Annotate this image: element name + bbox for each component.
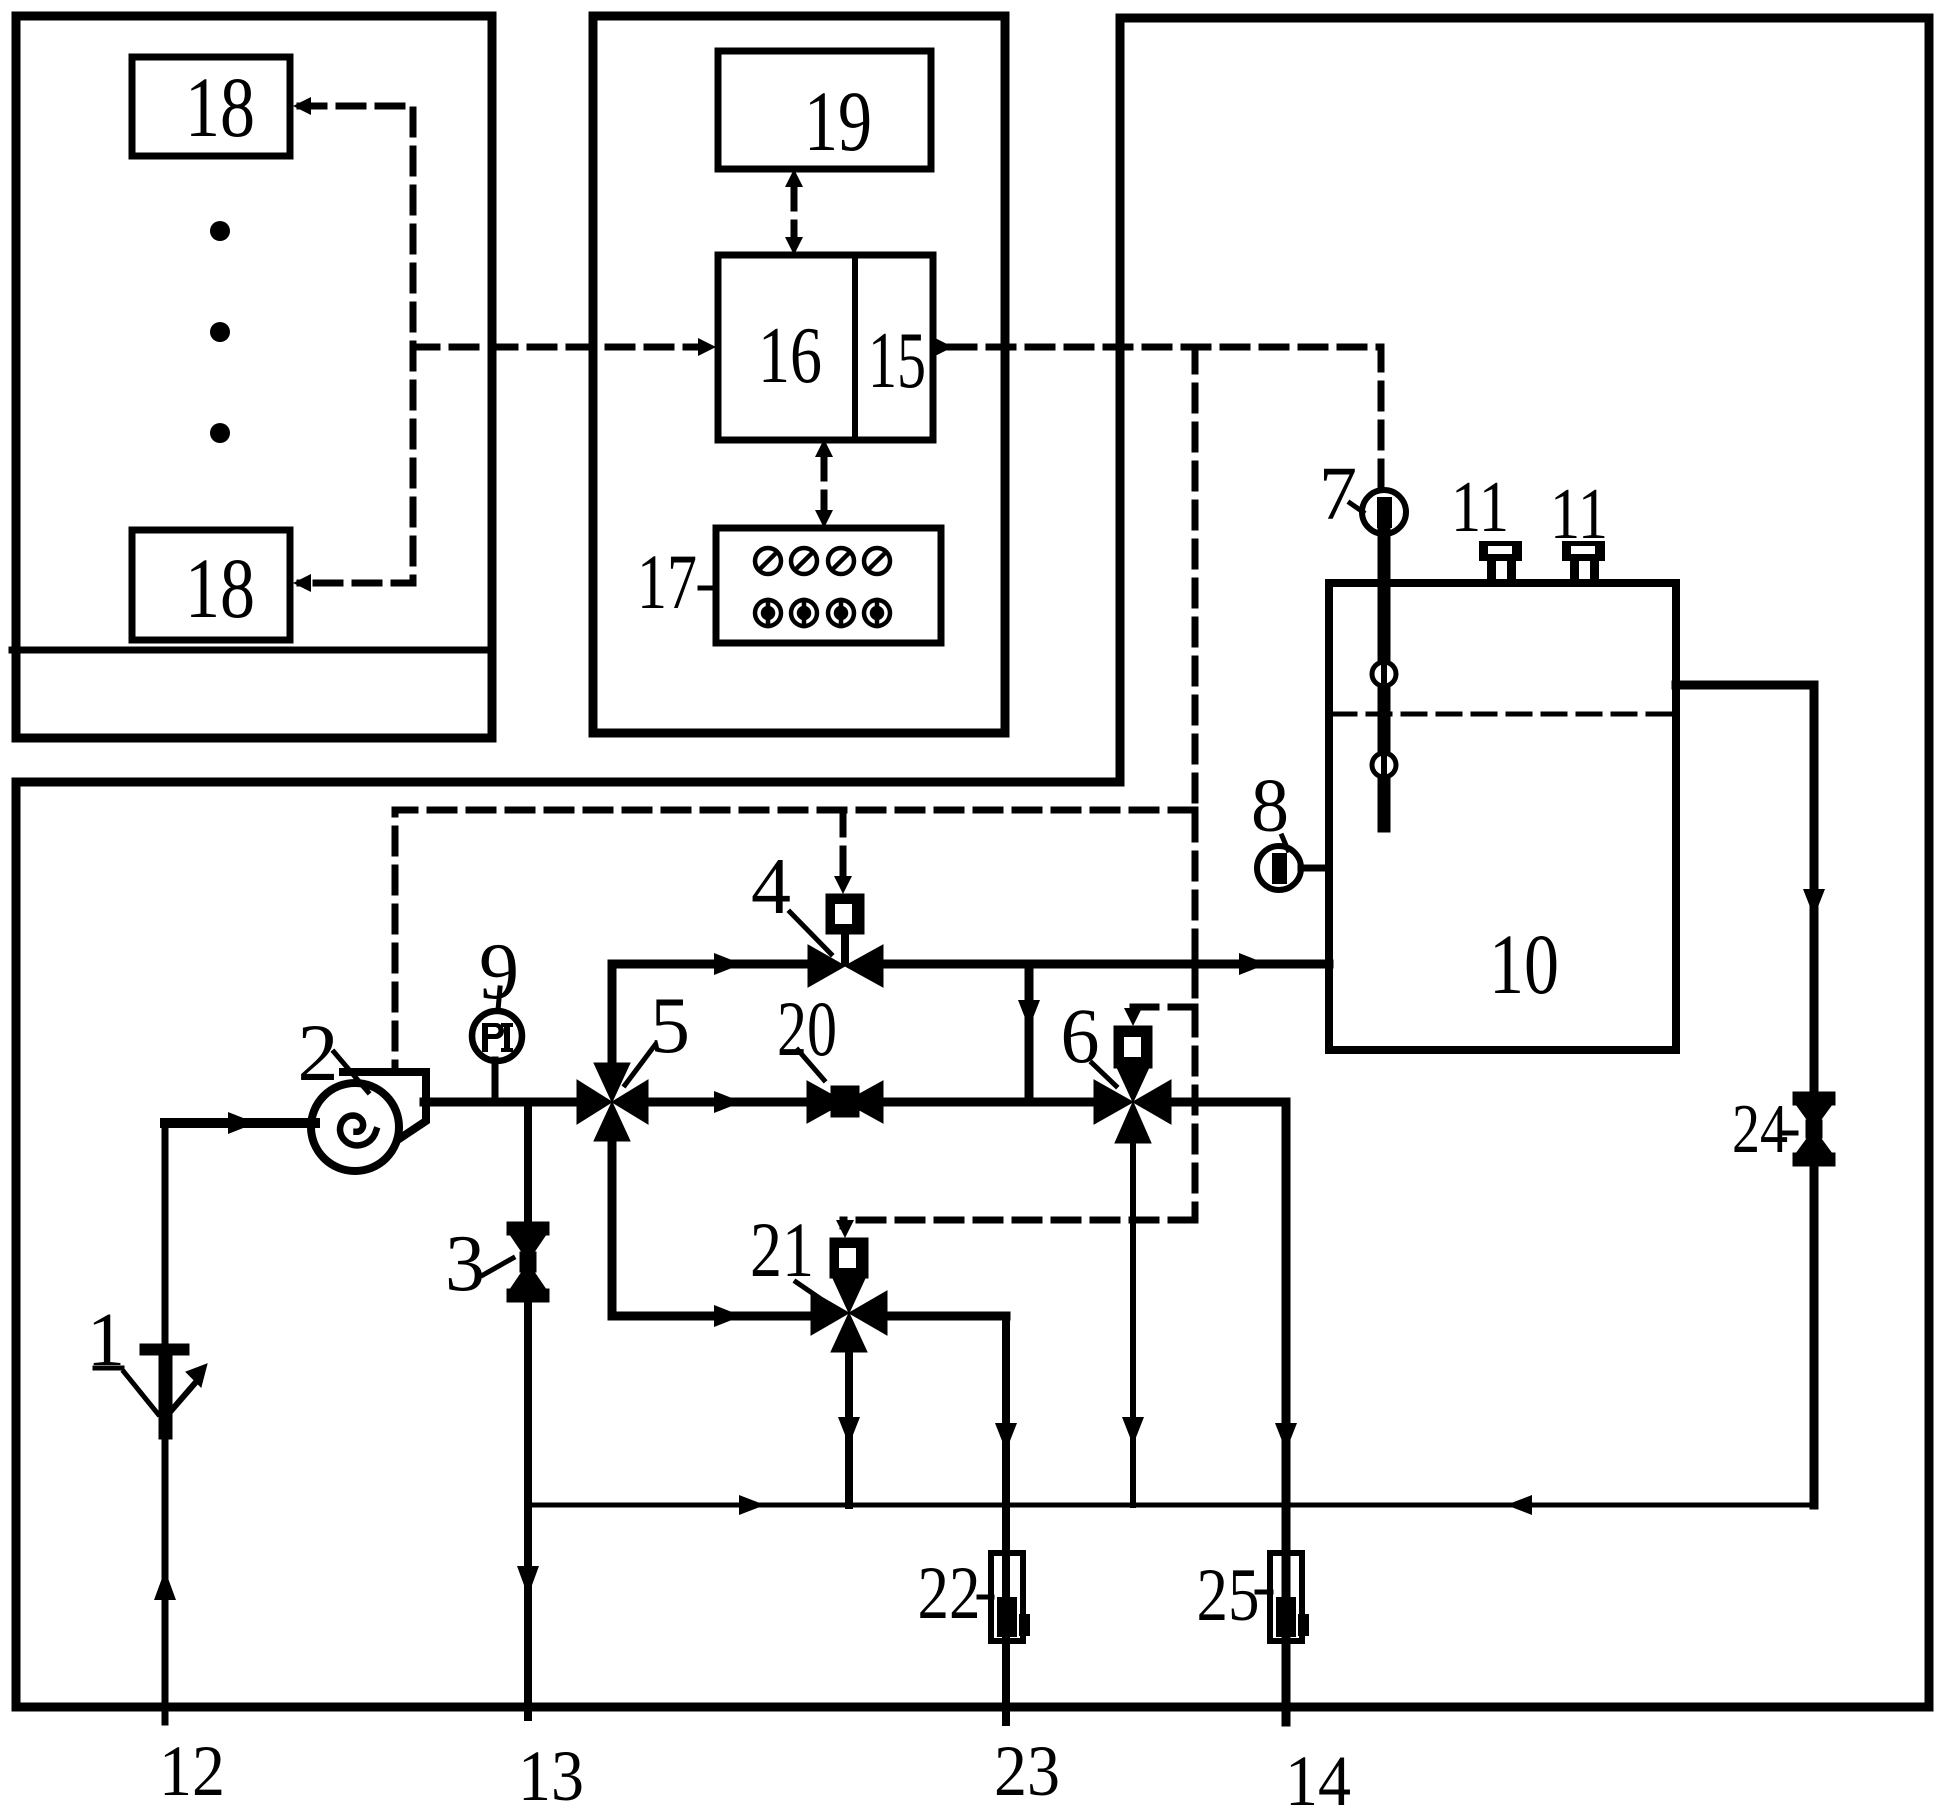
sensor 8 — [1257, 846, 1301, 890]
float switch upper — [1372, 662, 1396, 686]
arrow up into 16 bottom — [815, 439, 833, 457]
arrow out of 15 — [935, 338, 953, 356]
box 19 — [718, 51, 931, 169]
rotameter 22 — [991, 1553, 1023, 1641]
arrow upper line right — [714, 953, 742, 975]
svg-text:21: 21 — [750, 1206, 814, 1293]
knobs row2 in 17 — [755, 600, 890, 626]
pressure gauge PI — [472, 1011, 522, 1061]
pipe: line 23 vertical — [1002, 1316, 1010, 1722]
dots between 18 boxes — [210, 221, 230, 241]
arrow up into 19 — [785, 169, 803, 187]
control 19-16 link — [791, 184, 798, 240]
svg-text:24: 24 — [1732, 1091, 1788, 1168]
control branch to valve4 — [840, 810, 847, 878]
arrow down into valve4 actuator — [834, 876, 852, 894]
valve 21 (4-way) — [811, 1291, 849, 1335]
control line to pump — [395, 810, 1195, 1068]
arrow down into valve6 actuator — [1124, 1008, 1142, 1026]
arrow valve21 drop down — [838, 1417, 860, 1445]
svg-text:18: 18 — [185, 59, 255, 155]
pipe: suction line 12 to pump — [165, 1118, 315, 1128]
float switch lower — [1372, 753, 1396, 777]
arrow tank inlet right — [1239, 953, 1267, 975]
cap 11 left — [1479, 541, 1522, 584]
arrow line14 down — [1275, 1423, 1297, 1451]
control trunk to valve21 — [843, 1220, 1195, 1226]
tick for 17 — [700, 586, 717, 591]
control line 15 to sensor 7 — [950, 347, 1381, 488]
svg-text:15: 15 — [868, 317, 926, 405]
svg-text:4: 4 — [751, 843, 791, 931]
pipe: bottom collector line — [528, 1503, 1814, 1508]
level sensor 7 — [1362, 490, 1406, 534]
pipe: tank outlet to valve 24 — [1676, 681, 1814, 690]
valve 20 (regulating) — [807, 1081, 845, 1123]
arrow line13 down — [517, 1566, 539, 1596]
box 18 top — [132, 57, 290, 156]
rotameter 25 — [1270, 1553, 1302, 1641]
svg-text:16: 16 — [758, 312, 822, 400]
svg-text:5: 5 — [650, 982, 690, 1070]
svg-text:13: 13 — [518, 1736, 584, 1816]
level probe rod — [1378, 534, 1391, 826]
pipe: valve5 top riser — [608, 964, 617, 1063]
arrow line23 down — [995, 1423, 1017, 1451]
arrow down into 17 — [815, 510, 833, 528]
box 18 bottom — [132, 530, 290, 640]
svg-text:17: 17 — [637, 538, 697, 625]
valve 5 (4-way) — [577, 1080, 612, 1124]
arrow line12 up — [154, 1570, 176, 1600]
tank 10 — [1329, 583, 1676, 1050]
tick for 9 — [498, 988, 500, 1010]
svg-text:10: 10 — [1489, 916, 1559, 1012]
pipe: line 13 vertical — [524, 1102, 532, 1222]
arrow valve24 line down — [1803, 889, 1825, 917]
valve 4 actuator — [826, 894, 864, 934]
pipe: junction drop from upper line to main line — [1025, 964, 1034, 1102]
arrow valve21 line right — [714, 1305, 742, 1327]
box 16/15 — [718, 255, 933, 440]
arrow into 16 — [698, 338, 716, 356]
arrow into 18 bottom — [293, 574, 311, 592]
pipe: pump discharge main line — [424, 1098, 577, 1107]
tick for 2 — [334, 1052, 368, 1092]
control line junction to box16 — [413, 344, 702, 351]
arrow collector right — [739, 1495, 765, 1515]
svg-text:19: 19 — [804, 73, 872, 169]
valve 6 (4-way) — [1094, 1080, 1133, 1124]
pipe: gauge 9 stem — [492, 1060, 499, 1100]
svg-text:11: 11 — [1451, 466, 1509, 547]
tank level dashed line — [1333, 712, 1672, 717]
box 17 (knob panel) — [716, 528, 941, 643]
knobs row1 in 17 — [755, 548, 890, 574]
svg-text:12: 12 — [159, 1731, 225, 1811]
svg-text:7: 7 — [1319, 452, 1357, 536]
container left box (tank group enclosure) — [16, 16, 492, 738]
valve 3 (vertical globe) — [507, 1222, 549, 1235]
valve 21 actuator — [830, 1238, 868, 1278]
pipe: valve21 bottom drop — [845, 1351, 853, 1505]
pump P2 volute spiral — [340, 1116, 376, 1146]
pipe: upper bypass line through valve 4 — [612, 960, 808, 969]
valve 6 actuator — [1114, 1026, 1152, 1068]
arrow down into valve21 actuator — [836, 1220, 854, 1238]
svg-text:14: 14 — [1285, 1741, 1351, 1818]
svg-text:22: 22 — [918, 1552, 981, 1635]
container middle box (control cabinet) — [593, 16, 1005, 733]
svg-text:11: 11 — [1550, 473, 1608, 554]
pump P2 body — [311, 1083, 399, 1171]
svg-text:3: 3 — [445, 1220, 485, 1308]
arrow collector left — [1506, 1495, 1532, 1515]
arrow main line right — [714, 1091, 742, 1113]
pipe: line to valve 21 — [612, 1312, 811, 1321]
divider line in left box — [12, 647, 492, 654]
pipe: line 14 vertical — [1282, 1102, 1291, 1722]
cap 11 right — [1562, 541, 1605, 584]
arrow valve6 drop down — [1122, 1417, 1144, 1445]
pipe: vertical line 12 — [162, 1123, 169, 1344]
svg-text:18: 18 — [185, 540, 255, 636]
arrow suction right — [228, 1112, 256, 1134]
arrow into 18 top — [293, 97, 311, 115]
pipe: valve5 bottom riser — [608, 1141, 617, 1316]
svg-text:23: 23 — [994, 1731, 1060, 1811]
valve 24 (vertical globe) — [1793, 1092, 1835, 1105]
valve 4 (2-way with actuator) — [808, 945, 845, 987]
control line from 18 boxes — [300, 106, 413, 583]
arrow junction drop down — [1018, 1000, 1040, 1028]
control trunk vertical — [1192, 347, 1199, 1220]
control 16-17 link — [821, 454, 828, 514]
svg-text:25: 25 — [1197, 1554, 1260, 1637]
control branch to valve6 — [1133, 1007, 1195, 1012]
pipe: valve6 bottom drop — [1130, 1143, 1136, 1505]
arrow down into 16 — [785, 237, 803, 255]
